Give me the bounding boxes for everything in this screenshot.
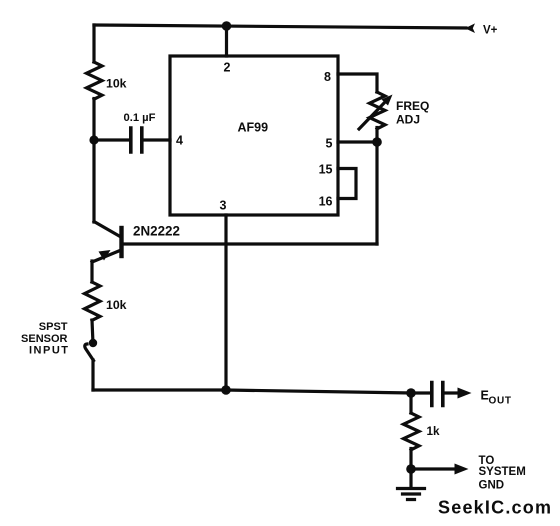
svg-text:4: 4 <box>176 134 183 148</box>
transistor Q1 2N2222 base bar <box>119 228 123 256</box>
svg-text:8: 8 <box>324 70 331 84</box>
junction dot capacitor node <box>89 135 98 144</box>
capacitor C1 0.1uF plates <box>131 128 142 152</box>
transistor collector lead <box>94 222 120 237</box>
wire pin 2 to top rail <box>225 26 228 56</box>
svg-text:0.1 µF: 0.1 µF <box>124 112 156 124</box>
transistor emitter arrowhead <box>99 250 111 261</box>
wire ground node to system gnd arrow <box>411 467 455 470</box>
svg-text:SENSOR: SENSOR <box>21 333 68 345</box>
junction dot pin 5 node <box>372 137 382 147</box>
wire collector vertical from cap node <box>92 140 95 222</box>
svg-text:SPST: SPST <box>39 321 68 333</box>
wire pin 8 to potentiometer top <box>338 74 377 92</box>
wire right vertical node down <box>375 142 378 244</box>
capacitor C2 output plates <box>432 383 443 406</box>
junction dot pin 3 / bottom rail <box>221 385 231 395</box>
output terminal arrowhead Eout <box>458 388 472 399</box>
potentiometer FREQ ADJ resistive element <box>370 92 386 129</box>
potentiometer FREQ ADJ arrow <box>359 101 386 129</box>
wire pin 5 to node <box>338 140 377 143</box>
wire node to C1 left plate <box>94 138 128 141</box>
svg-text:10k: 10k <box>106 77 127 91</box>
wire C2 to output arrow <box>445 391 459 394</box>
wire pin 15 / pin 16 loop <box>338 169 356 199</box>
wire pin 3 down to bottom rail <box>224 215 227 390</box>
svg-text:5: 5 <box>326 137 333 151</box>
svg-text:V+: V+ <box>483 24 498 36</box>
transistor emitter lead <box>92 251 120 263</box>
junction dot ground node <box>406 464 416 474</box>
power terminal arrowhead V+ <box>465 23 475 33</box>
switch S1 contact dot <box>89 339 97 347</box>
wire R3 bottom to ground node <box>409 449 412 470</box>
wire feedback rail to transistor base <box>123 242 377 245</box>
terminal arrowhead to system gnd <box>455 464 469 475</box>
svg-text:ADJ: ADJ <box>396 113 420 127</box>
svg-text:2N2222: 2N2222 <box>133 224 180 239</box>
svg-text:SeekIC.com: SeekIC.com <box>438 498 551 518</box>
wire potentiometer bottom to pin 5 node <box>375 128 378 143</box>
svg-text:10k: 10k <box>106 298 127 312</box>
svg-text:16: 16 <box>319 195 333 209</box>
svg-text:GND: GND <box>479 479 505 491</box>
junction dot output node <box>406 388 416 398</box>
wire R2 bottom to switch contact <box>90 320 94 339</box>
wire bottom rail right <box>226 390 411 393</box>
wire switch to bottom rail corner <box>91 360 94 390</box>
svg-text:AF99: AF99 <box>238 121 269 135</box>
svg-text:15: 15 <box>319 163 333 177</box>
svg-text:3: 3 <box>220 199 227 213</box>
wire output node to C2 <box>411 391 430 394</box>
junction dot top rail / pin 2 <box>222 21 232 31</box>
wire emitter down to R2 <box>90 261 93 282</box>
switch S1 blade <box>85 344 94 361</box>
wire bottom rail left <box>93 388 226 391</box>
svg-text:2: 2 <box>224 61 231 75</box>
svg-text:OUT: OUT <box>489 396 512 407</box>
wire top V+ rail <box>94 25 466 28</box>
svg-text:1k: 1k <box>427 425 441 438</box>
resistor R2 10k <box>85 282 101 320</box>
wire output node down to R3 <box>409 393 412 413</box>
svg-text:INPUT: INPUT <box>29 344 68 356</box>
wire ground stub <box>409 469 412 487</box>
svg-text:FREQ: FREQ <box>396 99 429 113</box>
wire C1 right plate to pin 4 <box>144 138 171 141</box>
resistor R3 1k <box>404 413 420 450</box>
potentiometer arrowhead <box>382 95 393 106</box>
wire left vertical between R1 and capacitor node <box>92 99 95 141</box>
svg-text:SYSTEM: SYSTEM <box>479 466 526 478</box>
wire left branch vertical upper <box>92 25 95 62</box>
ground symbol <box>398 489 425 500</box>
IC U1 AF99 module body <box>170 56 338 215</box>
resistor R1 10k <box>87 62 103 99</box>
